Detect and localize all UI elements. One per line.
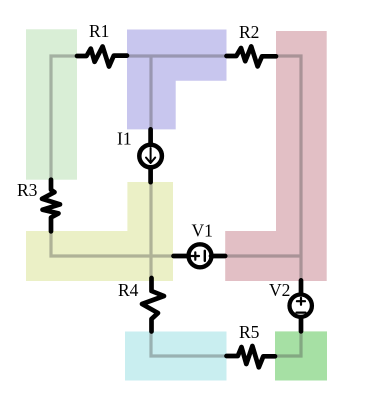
node F (green region, bottom-right) bbox=[275, 331, 327, 380]
resistor R1 bbox=[77, 47, 127, 67]
voltage source V2 bbox=[299, 280, 304, 294]
wire node D: from R3 down and right, crossing vertical wire through yellow bbox=[51, 182, 173, 281]
resistor R5 bbox=[227, 346, 276, 367]
resistor R3 bbox=[42, 180, 60, 232]
svg-text:R5: R5 bbox=[239, 322, 260, 342]
wire node A: top-left corner bbox=[51, 56, 77, 180]
node D (yellow region, middle-left) bbox=[26, 182, 173, 281]
voltage source V1 bbox=[174, 254, 190, 259]
resistor R2 bbox=[227, 46, 277, 66]
svg-text:R2: R2 bbox=[239, 22, 259, 42]
svg-text:V2: V2 bbox=[269, 280, 290, 300]
node B (purple region, top-middle) bbox=[127, 30, 227, 130]
svg-text:R3: R3 bbox=[17, 180, 38, 200]
svg-text:I1: I1 bbox=[117, 129, 132, 149]
node A (green region, top-left) bbox=[26, 29, 77, 179]
wire node C: top-right corner down pink column, with arm from V1 bbox=[225, 56, 301, 281]
current source I1 bbox=[148, 129, 153, 144]
svg-text:R1: R1 bbox=[89, 21, 109, 41]
wire node E: from R4 down and right bbox=[151, 332, 227, 357]
node C (pink region, right) bbox=[225, 31, 327, 281]
node E (cyan region, bottom-middle) bbox=[125, 332, 227, 381]
resistor R4 bbox=[142, 278, 164, 332]
wire node F: from V2 down and left bbox=[275, 331, 301, 356]
svg-text:V1: V1 bbox=[192, 221, 213, 241]
wire node B: horizontal through purple with vertical drop to I1 bbox=[127, 56, 227, 129]
svg-text:R4: R4 bbox=[118, 280, 139, 300]
